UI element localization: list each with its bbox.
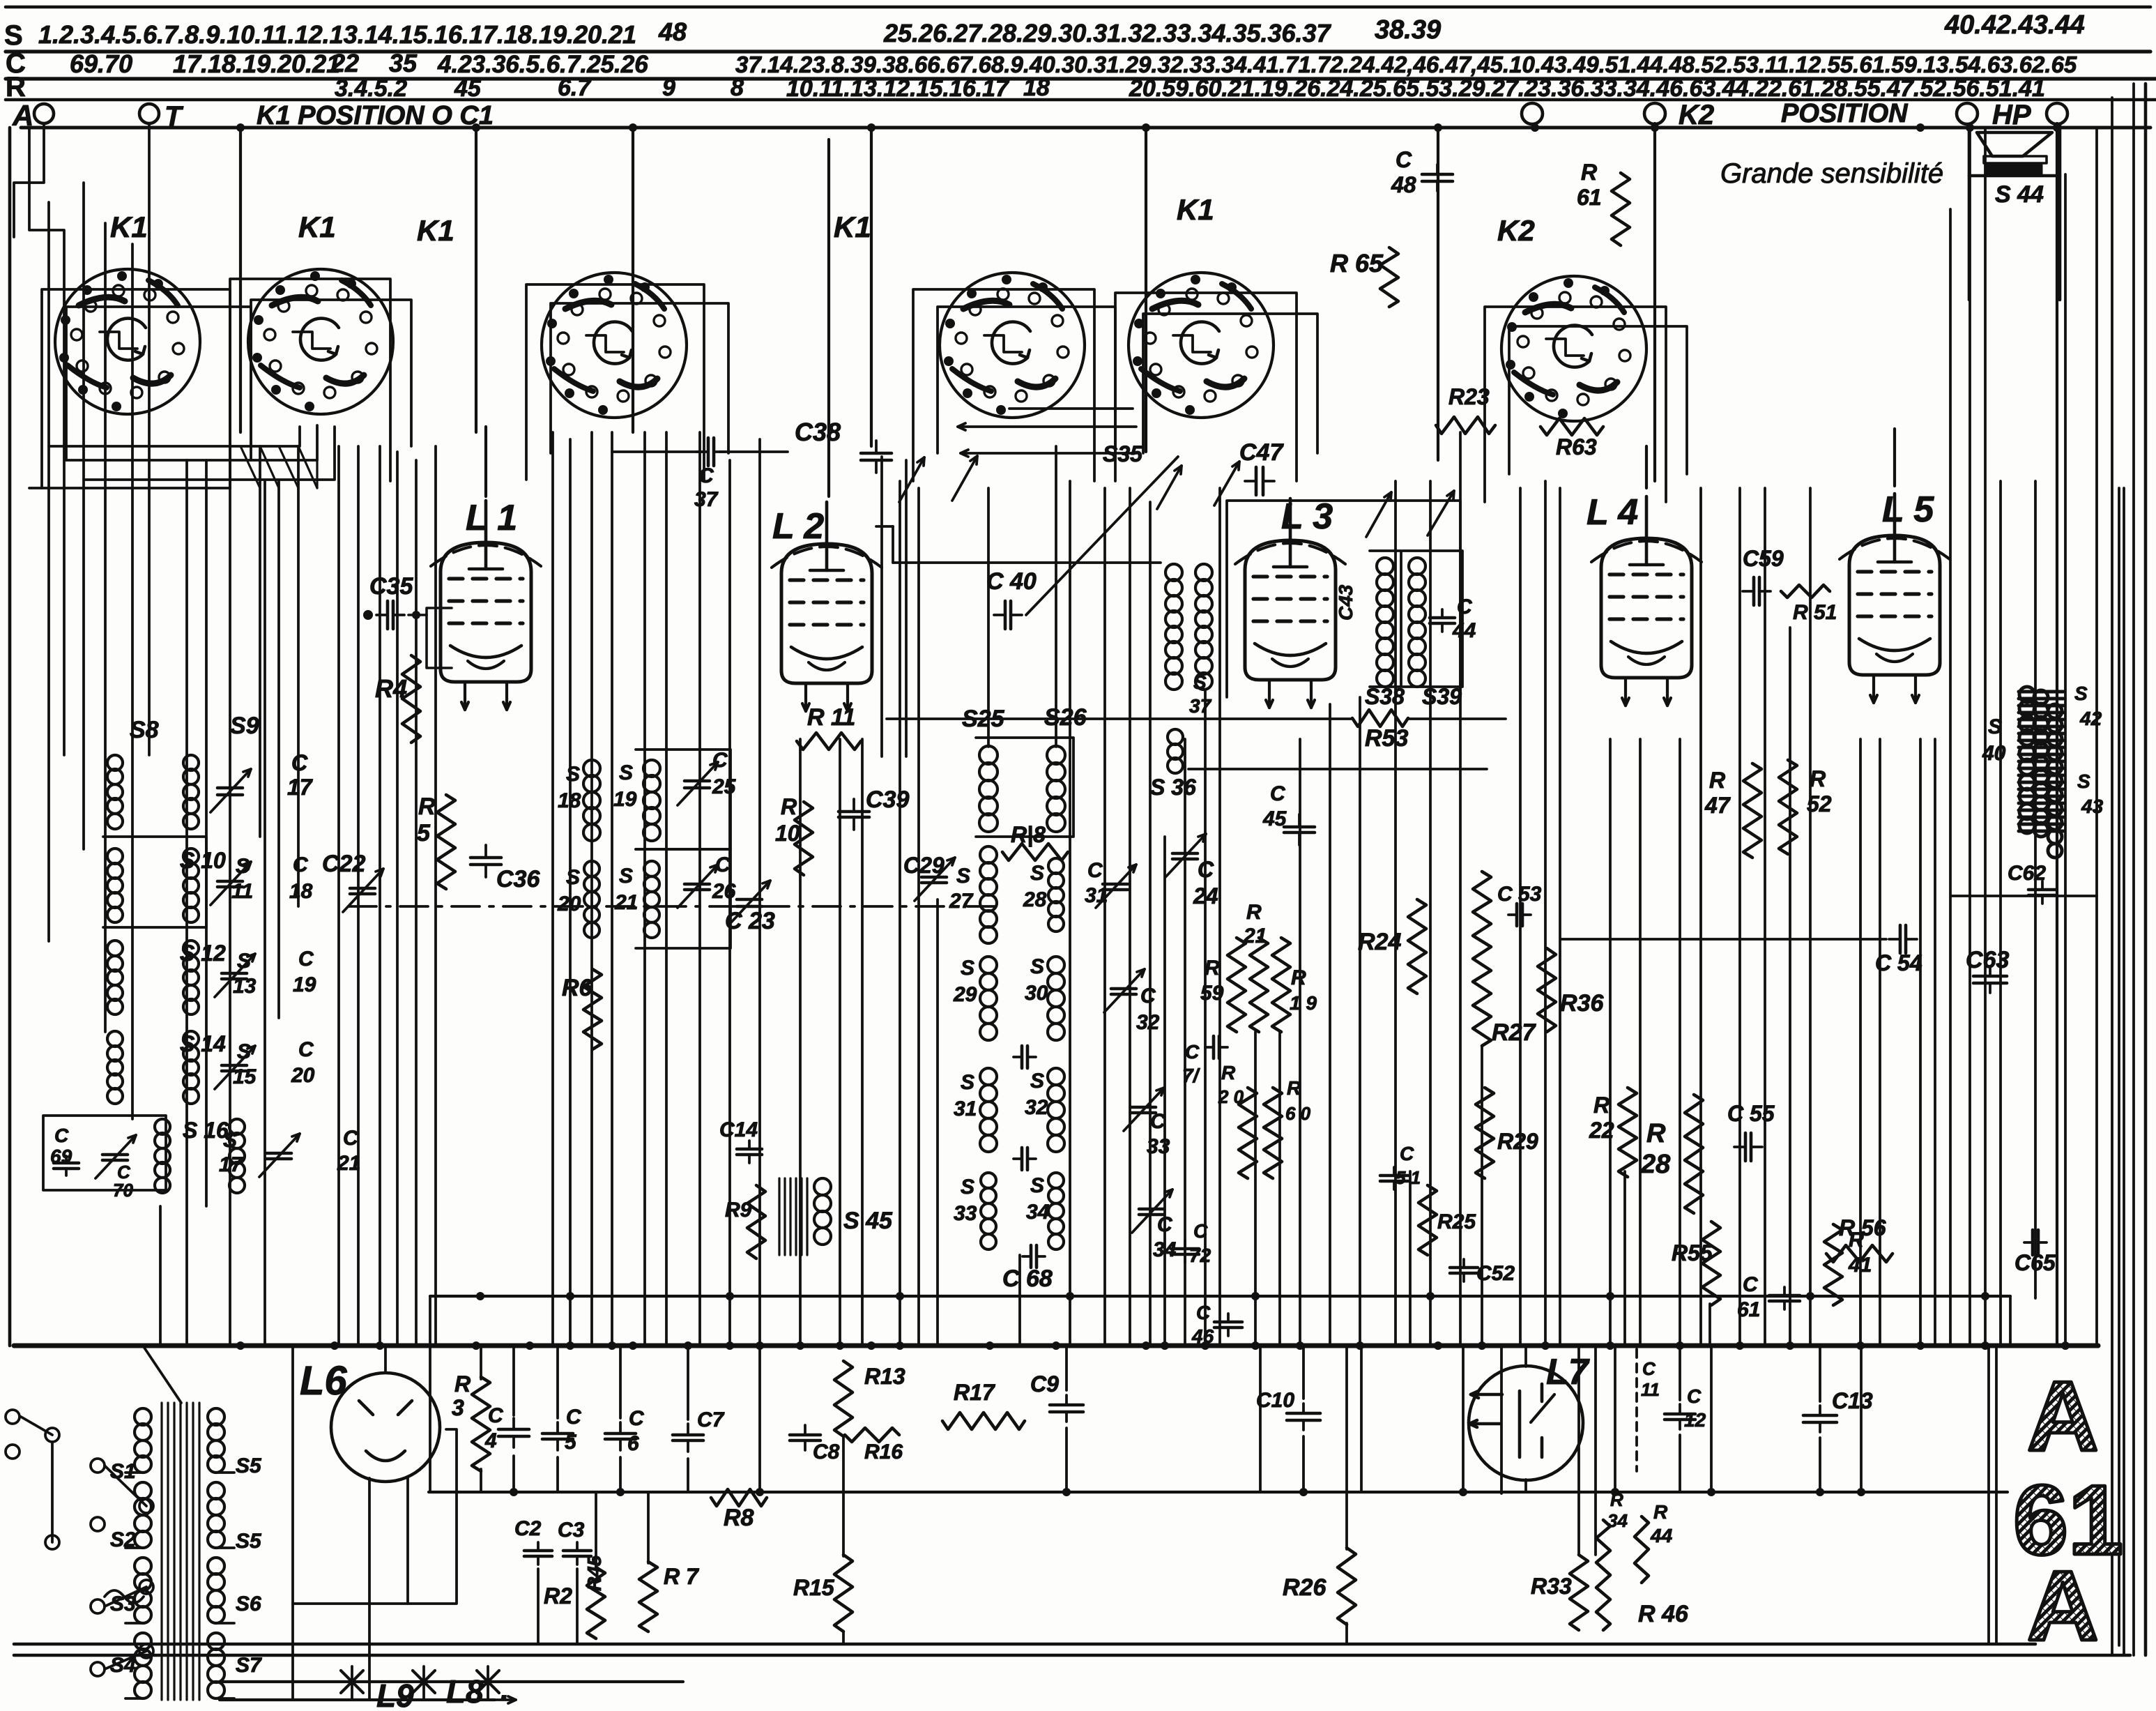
svg-text:K1: K1 bbox=[1177, 193, 1214, 226]
svg-text:5: 5 bbox=[417, 820, 431, 846]
svg-text:C: C bbox=[712, 749, 728, 772]
svg-text:S6: S6 bbox=[236, 1592, 261, 1615]
svg-text:L6: L6 bbox=[300, 1358, 347, 1404]
svg-text:C: C bbox=[1140, 984, 1156, 1007]
svg-text:K1: K1 bbox=[110, 211, 148, 243]
svg-text:59: 59 bbox=[1200, 982, 1224, 1005]
svg-text:33: 33 bbox=[1147, 1135, 1170, 1158]
svg-text:C: C bbox=[1185, 1041, 1200, 1063]
svg-text:R: R bbox=[1849, 1229, 1864, 1252]
svg-text:S 44: S 44 bbox=[1995, 181, 2044, 208]
svg-text:R25: R25 bbox=[1437, 1210, 1476, 1233]
svg-text:S4: S4 bbox=[110, 1654, 136, 1677]
svg-text:42: 42 bbox=[2079, 708, 2102, 729]
svg-text:S: S bbox=[961, 1176, 974, 1199]
svg-text:K1: K1 bbox=[834, 211, 871, 243]
svg-text:R: R bbox=[1653, 1501, 1668, 1523]
svg-text:S: S bbox=[961, 957, 974, 980]
svg-text:C: C bbox=[1743, 1273, 1759, 1296]
svg-text:C: C bbox=[298, 1038, 314, 1061]
svg-text:S: S bbox=[956, 865, 970, 888]
svg-text:20: 20 bbox=[557, 892, 581, 915]
svg-text:C3: C3 bbox=[558, 1519, 585, 1542]
svg-text:R9: R9 bbox=[725, 1199, 752, 1222]
svg-text:6.7: 6.7 bbox=[558, 75, 592, 101]
svg-text:S26: S26 bbox=[1044, 704, 1087, 731]
svg-text:K1: K1 bbox=[298, 211, 336, 243]
svg-text:R24: R24 bbox=[1358, 929, 1401, 955]
svg-text:C22: C22 bbox=[322, 851, 365, 877]
svg-text:R 51: R 51 bbox=[1793, 601, 1837, 624]
svg-text:3.4.5.2: 3.4.5.2 bbox=[335, 75, 407, 102]
svg-text:13: 13 bbox=[233, 975, 257, 998]
svg-text:40: 40 bbox=[1982, 742, 2006, 765]
svg-text:40.42.43.44: 40.42.43.44 bbox=[1944, 10, 2085, 40]
svg-text:L 3: L 3 bbox=[1281, 496, 1333, 537]
svg-text:18: 18 bbox=[1023, 75, 1050, 101]
svg-text:C: C bbox=[298, 948, 314, 971]
svg-text:R15: R15 bbox=[793, 1575, 835, 1600]
svg-text:C: C bbox=[291, 750, 308, 775]
svg-text:1 9: 1 9 bbox=[1290, 992, 1317, 1014]
svg-text:R 65: R 65 bbox=[1330, 249, 1384, 277]
svg-text:.: . bbox=[500, 1673, 509, 1707]
svg-text:28: 28 bbox=[1640, 1150, 1671, 1179]
svg-text:6: 6 bbox=[627, 1432, 639, 1455]
svg-text:R17: R17 bbox=[954, 1380, 996, 1405]
svg-text:C 55: C 55 bbox=[1727, 1101, 1775, 1126]
svg-text:R55: R55 bbox=[1672, 1240, 1713, 1265]
svg-text:20.59.60.21.19.26.24.25.65.53.: 20.59.60.21.19.26.24.25.65.53.29.27.23.3… bbox=[1129, 75, 2045, 102]
svg-text:C: C bbox=[1193, 1220, 1208, 1242]
svg-text:K1 POSITION O C1: K1 POSITION O C1 bbox=[257, 101, 494, 130]
svg-text:61: 61 bbox=[1577, 185, 1602, 210]
svg-text:47: 47 bbox=[1704, 793, 1731, 818]
svg-text:S: S bbox=[2077, 770, 2090, 792]
svg-text:C10: C10 bbox=[1256, 1389, 1294, 1412]
svg-text:5: 5 bbox=[565, 1431, 577, 1454]
svg-text:C9: C9 bbox=[1030, 1371, 1059, 1397]
svg-text:C: C bbox=[698, 464, 714, 487]
svg-text:9: 9 bbox=[662, 75, 675, 101]
svg-text:C: C bbox=[1400, 1143, 1414, 1164]
svg-text:S: S bbox=[1988, 715, 2002, 738]
svg-text:24: 24 bbox=[1193, 883, 1218, 908]
svg-text:C52: C52 bbox=[1476, 1262, 1515, 1285]
svg-text:R33: R33 bbox=[1531, 1574, 1572, 1599]
svg-text:21: 21 bbox=[614, 891, 638, 914]
svg-text:61: 61 bbox=[1737, 1298, 1760, 1321]
svg-text:R: R bbox=[1581, 160, 1597, 185]
svg-text:K1: K1 bbox=[417, 214, 454, 247]
svg-text:31: 31 bbox=[954, 1097, 977, 1120]
svg-text:S: S bbox=[1030, 1070, 1044, 1093]
svg-text:S: S bbox=[1030, 862, 1044, 885]
svg-text:R2: R2 bbox=[544, 1583, 572, 1609]
svg-text:S: S bbox=[1030, 1174, 1044, 1197]
svg-text:C47: C47 bbox=[1239, 439, 1284, 466]
svg-text:30: 30 bbox=[1025, 982, 1048, 1005]
svg-text:R: R bbox=[1709, 768, 1725, 793]
svg-text:12: 12 bbox=[1684, 1409, 1706, 1431]
svg-text:S: S bbox=[961, 1071, 974, 1094]
svg-text:S: S bbox=[236, 855, 250, 878]
svg-text:37: 37 bbox=[1189, 695, 1212, 717]
svg-text:S5: S5 bbox=[236, 1454, 262, 1477]
svg-text:R8: R8 bbox=[724, 1505, 754, 1531]
svg-text:37: 37 bbox=[694, 488, 719, 511]
svg-text:17.18.19.20.21: 17.18.19.20.21 bbox=[173, 50, 340, 78]
svg-text:S2: S2 bbox=[110, 1528, 136, 1551]
svg-text:L7: L7 bbox=[1546, 1352, 1590, 1392]
svg-text:C29: C29 bbox=[903, 853, 945, 878]
svg-text:R: R bbox=[454, 1371, 471, 1397]
svg-text:45: 45 bbox=[454, 75, 482, 102]
svg-text:S: S bbox=[566, 763, 580, 786]
svg-text:18: 18 bbox=[558, 789, 581, 812]
svg-text:C 53: C 53 bbox=[1497, 883, 1542, 906]
svg-text:C43: C43 bbox=[1335, 584, 1356, 621]
svg-text:C: C bbox=[715, 853, 731, 876]
svg-text:S: S bbox=[2074, 683, 2088, 704]
svg-text:K2: K2 bbox=[1497, 214, 1535, 247]
svg-text:S 36: S 36 bbox=[1150, 775, 1196, 800]
svg-text:R27: R27 bbox=[1492, 1019, 1536, 1046]
svg-text:S5: S5 bbox=[236, 1530, 262, 1553]
svg-text:R 7: R 7 bbox=[664, 1564, 700, 1589]
svg-text:S: S bbox=[237, 950, 251, 973]
svg-text:35: 35 bbox=[389, 49, 418, 77]
svg-text:S: S bbox=[1030, 955, 1044, 978]
svg-text:C: C bbox=[1196, 1302, 1211, 1323]
svg-text:C35: C35 bbox=[369, 573, 413, 600]
svg-text:C 68: C 68 bbox=[1002, 1265, 1053, 1292]
svg-text:38.39: 38.39 bbox=[1375, 15, 1441, 45]
svg-text:8: 8 bbox=[731, 75, 744, 101]
svg-text:29: 29 bbox=[953, 983, 977, 1006]
svg-text:22: 22 bbox=[330, 49, 359, 77]
svg-text:34: 34 bbox=[1607, 1510, 1628, 1531]
svg-text:31: 31 bbox=[1085, 884, 1108, 907]
svg-text:R26: R26 bbox=[1283, 1574, 1327, 1601]
svg-text:10.11.13.12.15.16.17: 10.11.13.12.15.16.17 bbox=[786, 75, 1010, 102]
svg-text:R13: R13 bbox=[864, 1364, 905, 1389]
svg-text:48: 48 bbox=[658, 17, 687, 46]
svg-text:20: 20 bbox=[291, 1064, 315, 1087]
svg-text:R23: R23 bbox=[1448, 384, 1490, 409]
svg-text:34: 34 bbox=[1026, 1201, 1050, 1224]
svg-text:R: R bbox=[781, 794, 797, 819]
svg-text:26: 26 bbox=[712, 880, 736, 903]
svg-text:C 40: C 40 bbox=[986, 568, 1037, 595]
svg-text:L8: L8 bbox=[446, 1673, 484, 1710]
svg-text:C 54: C 54 bbox=[1875, 950, 1922, 975]
svg-text:C: C bbox=[1270, 782, 1286, 805]
svg-text:32: 32 bbox=[1136, 1011, 1160, 1034]
svg-text:C: C bbox=[1087, 859, 1103, 882]
svg-text:C: C bbox=[343, 1127, 359, 1150]
svg-text:44: 44 bbox=[1452, 619, 1476, 642]
svg-text:S 45: S 45 bbox=[843, 1208, 893, 1234]
svg-text:C: C bbox=[566, 1406, 582, 1429]
svg-text:C 23: C 23 bbox=[725, 908, 775, 934]
svg-text:15: 15 bbox=[233, 1065, 257, 1088]
svg-text:L 5: L 5 bbox=[1882, 489, 1934, 530]
svg-text:C63: C63 bbox=[1966, 947, 2009, 973]
svg-text:25.26.27.28.29.30.31.32.33.34.: 25.26.27.28.29.30.31.32.33.34.35.36.37 bbox=[883, 19, 1332, 47]
svg-text:S: S bbox=[237, 1040, 251, 1063]
svg-text:C: C bbox=[1157, 1213, 1173, 1236]
svg-text:28: 28 bbox=[1023, 888, 1047, 911]
svg-text:POSITION: POSITION bbox=[1781, 99, 1909, 128]
svg-text:S: S bbox=[1193, 671, 1207, 693]
svg-text:1.2.3.4.5.6.7.8.9.10.11.12.13.: 1.2.3.4.5.6.7.8.9.10.11.12.13.14.15.16.1… bbox=[38, 20, 636, 49]
svg-text:5 1: 5 1 bbox=[1396, 1167, 1421, 1188]
svg-text:A: A bbox=[2027, 1551, 2099, 1661]
svg-text:S7: S7 bbox=[236, 1654, 262, 1677]
svg-text:S9: S9 bbox=[230, 713, 259, 739]
svg-text:S8: S8 bbox=[130, 717, 159, 743]
svg-text:2 0: 2 0 bbox=[1218, 1086, 1244, 1107]
svg-text:C65: C65 bbox=[2014, 1250, 2056, 1275]
svg-text:C14: C14 bbox=[719, 1118, 758, 1141]
svg-text:R 11: R 11 bbox=[807, 704, 855, 731]
svg-text:Grande sensibilité: Grande sensibilité bbox=[1720, 158, 1943, 189]
svg-text:C: C bbox=[1396, 147, 1412, 172]
svg-text:A: A bbox=[2027, 1361, 2099, 1472]
svg-text:4.23.36.5.6.7.25.26: 4.23.36.5.6.7.25.26 bbox=[437, 51, 648, 78]
svg-text:41: 41 bbox=[1848, 1254, 1872, 1277]
svg-text:T: T bbox=[165, 101, 184, 132]
svg-text:L 1: L 1 bbox=[466, 498, 517, 538]
svg-text:R36: R36 bbox=[1560, 990, 1604, 1017]
svg-text:R: R bbox=[1810, 766, 1826, 791]
svg-text:S: S bbox=[566, 866, 580, 889]
svg-text:R: R bbox=[1291, 966, 1306, 989]
svg-text:R63: R63 bbox=[1556, 434, 1597, 459]
svg-text:C: C bbox=[1150, 1110, 1166, 1133]
svg-text:69.70: 69.70 bbox=[70, 50, 132, 78]
svg-text:C8: C8 bbox=[813, 1440, 840, 1463]
svg-text:R6: R6 bbox=[562, 975, 593, 1001]
svg-text:C62: C62 bbox=[2008, 862, 2046, 885]
svg-text:C13: C13 bbox=[1832, 1388, 1873, 1413]
svg-text:R: R bbox=[1221, 1062, 1236, 1083]
svg-text:6 0: 6 0 bbox=[1285, 1103, 1311, 1124]
svg-text:C59: C59 bbox=[1743, 546, 1784, 571]
svg-text:18: 18 bbox=[289, 880, 313, 903]
svg-text:R: R bbox=[1646, 1119, 1666, 1148]
svg-text:52: 52 bbox=[1807, 791, 1832, 816]
svg-text:43: 43 bbox=[2081, 796, 2104, 817]
svg-text:C: C bbox=[54, 1125, 69, 1146]
svg-text:37.14.23.8.39.38.66.67.68.9.40: 37.14.23.8.39.38.66.67.68.9.40.30.31.29.… bbox=[735, 52, 2077, 77]
svg-text:32: 32 bbox=[1025, 1096, 1048, 1119]
svg-text:L 2: L 2 bbox=[772, 506, 824, 547]
svg-text:45: 45 bbox=[1262, 807, 1287, 830]
svg-text:C39: C39 bbox=[866, 786, 909, 813]
svg-text:HP: HP bbox=[1992, 100, 2031, 130]
svg-text:R 46: R 46 bbox=[1638, 1601, 1689, 1627]
svg-text:R: R bbox=[1205, 957, 1220, 980]
svg-text:4: 4 bbox=[484, 1429, 497, 1452]
svg-text:C: C bbox=[293, 853, 309, 876]
svg-text:25: 25 bbox=[712, 775, 737, 798]
svg-text:C: C bbox=[488, 1404, 504, 1427]
svg-text:A: A bbox=[12, 99, 33, 132]
svg-text:7/: 7/ bbox=[1182, 1065, 1201, 1086]
svg-text:L 4: L 4 bbox=[1587, 492, 1638, 533]
svg-text:19: 19 bbox=[613, 788, 637, 811]
svg-text:21: 21 bbox=[1243, 925, 1267, 948]
svg-text:72: 72 bbox=[1189, 1245, 1211, 1266]
svg-text:S1: S1 bbox=[110, 1460, 136, 1483]
svg-text:R16: R16 bbox=[864, 1440, 903, 1463]
svg-text:33: 33 bbox=[954, 1202, 977, 1225]
svg-text:R: R bbox=[1246, 901, 1262, 924]
svg-text:R: R bbox=[1287, 1077, 1301, 1099]
svg-text:10: 10 bbox=[775, 821, 800, 846]
svg-text:17: 17 bbox=[287, 775, 314, 800]
svg-text:C2: C2 bbox=[514, 1517, 542, 1540]
svg-text:R: R bbox=[418, 793, 436, 820]
svg-text:R29: R29 bbox=[1497, 1129, 1538, 1154]
svg-text:27: 27 bbox=[949, 890, 974, 913]
svg-text:R: R bbox=[1593, 1093, 1610, 1118]
svg-text:R4: R4 bbox=[375, 674, 407, 703]
svg-text:K2: K2 bbox=[1679, 100, 1714, 130]
svg-text:19: 19 bbox=[293, 973, 316, 996]
svg-text:48: 48 bbox=[1391, 172, 1416, 197]
svg-text:R: R bbox=[6, 72, 26, 102]
svg-text:C: C bbox=[1198, 857, 1214, 882]
svg-text:S: S bbox=[4, 20, 23, 51]
svg-text:C38: C38 bbox=[795, 418, 841, 446]
svg-text:44: 44 bbox=[1650, 1525, 1673, 1546]
svg-text:11: 11 bbox=[1641, 1379, 1660, 1400]
svg-text:C7: C7 bbox=[697, 1408, 725, 1431]
svg-text:S: S bbox=[619, 865, 633, 888]
svg-text:3: 3 bbox=[452, 1395, 464, 1420]
svg-text:R|8: R|8 bbox=[1011, 822, 1046, 847]
svg-text:R45: R45 bbox=[583, 1555, 605, 1591]
svg-text:C: C bbox=[629, 1407, 645, 1430]
svg-text:C: C bbox=[1457, 595, 1473, 618]
svg-text:L9: L9 bbox=[376, 1678, 414, 1711]
svg-text:11: 11 bbox=[231, 880, 253, 903]
svg-text:S3: S3 bbox=[110, 1592, 136, 1615]
svg-text:C: C bbox=[1687, 1385, 1702, 1407]
svg-text:R53: R53 bbox=[1365, 725, 1408, 752]
svg-text:S35: S35 bbox=[1103, 441, 1143, 466]
svg-text:70: 70 bbox=[113, 1180, 133, 1201]
svg-text:C36: C36 bbox=[496, 866, 540, 892]
svg-text:22: 22 bbox=[1589, 1118, 1614, 1143]
svg-text:S: S bbox=[619, 761, 633, 784]
svg-text:C: C bbox=[1642, 1358, 1656, 1379]
